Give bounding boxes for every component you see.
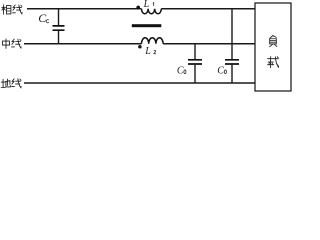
inductor L1 coil (142, 9, 162, 14)
svg-text:C: C (177, 65, 184, 76)
wire: phase line left segment (27, 8, 142, 10)
svg-text:L: L (144, 46, 151, 57)
capacitor C0b plates (225, 60, 239, 64)
choke core bar (132, 24, 162, 27)
capacitor Cc lead bottom (58, 31, 60, 44)
node label 相线 (phase line) (2, 5, 11, 15)
load label 负 (270, 36, 277, 47)
node label 中线 (neutral line) (3, 39, 10, 49)
capacitor C0a plates (188, 60, 202, 64)
capacitor C0a lead top (from neutral) (194, 44, 196, 59)
wire: neutral line right segment (163, 43, 255, 45)
capacitor C0b lead bottom (231, 65, 233, 83)
capacitor Cc plates (53, 26, 65, 30)
capacitor C0b lead top (from phase, crossing neutral) (231, 9, 233, 59)
capacitor C0a lead bottom (194, 65, 196, 83)
wire: ground line (24, 82, 255, 84)
capacitor Cc lead top (58, 9, 60, 25)
inductor L1 dot (136, 6, 140, 10)
svg-text:L: L (143, 0, 150, 10)
load box 负载 (255, 3, 291, 91)
inductor L2 dot (138, 45, 142, 49)
wire: phase line right segment (161, 8, 255, 10)
inductor L2 coil (142, 38, 164, 44)
load label 载 (268, 57, 279, 68)
wire: neutral line left segment (24, 43, 142, 45)
svg-text:C: C (217, 65, 224, 76)
node label 地线 (ground line) (1, 79, 11, 88)
svg-text:C: C (38, 11, 47, 25)
